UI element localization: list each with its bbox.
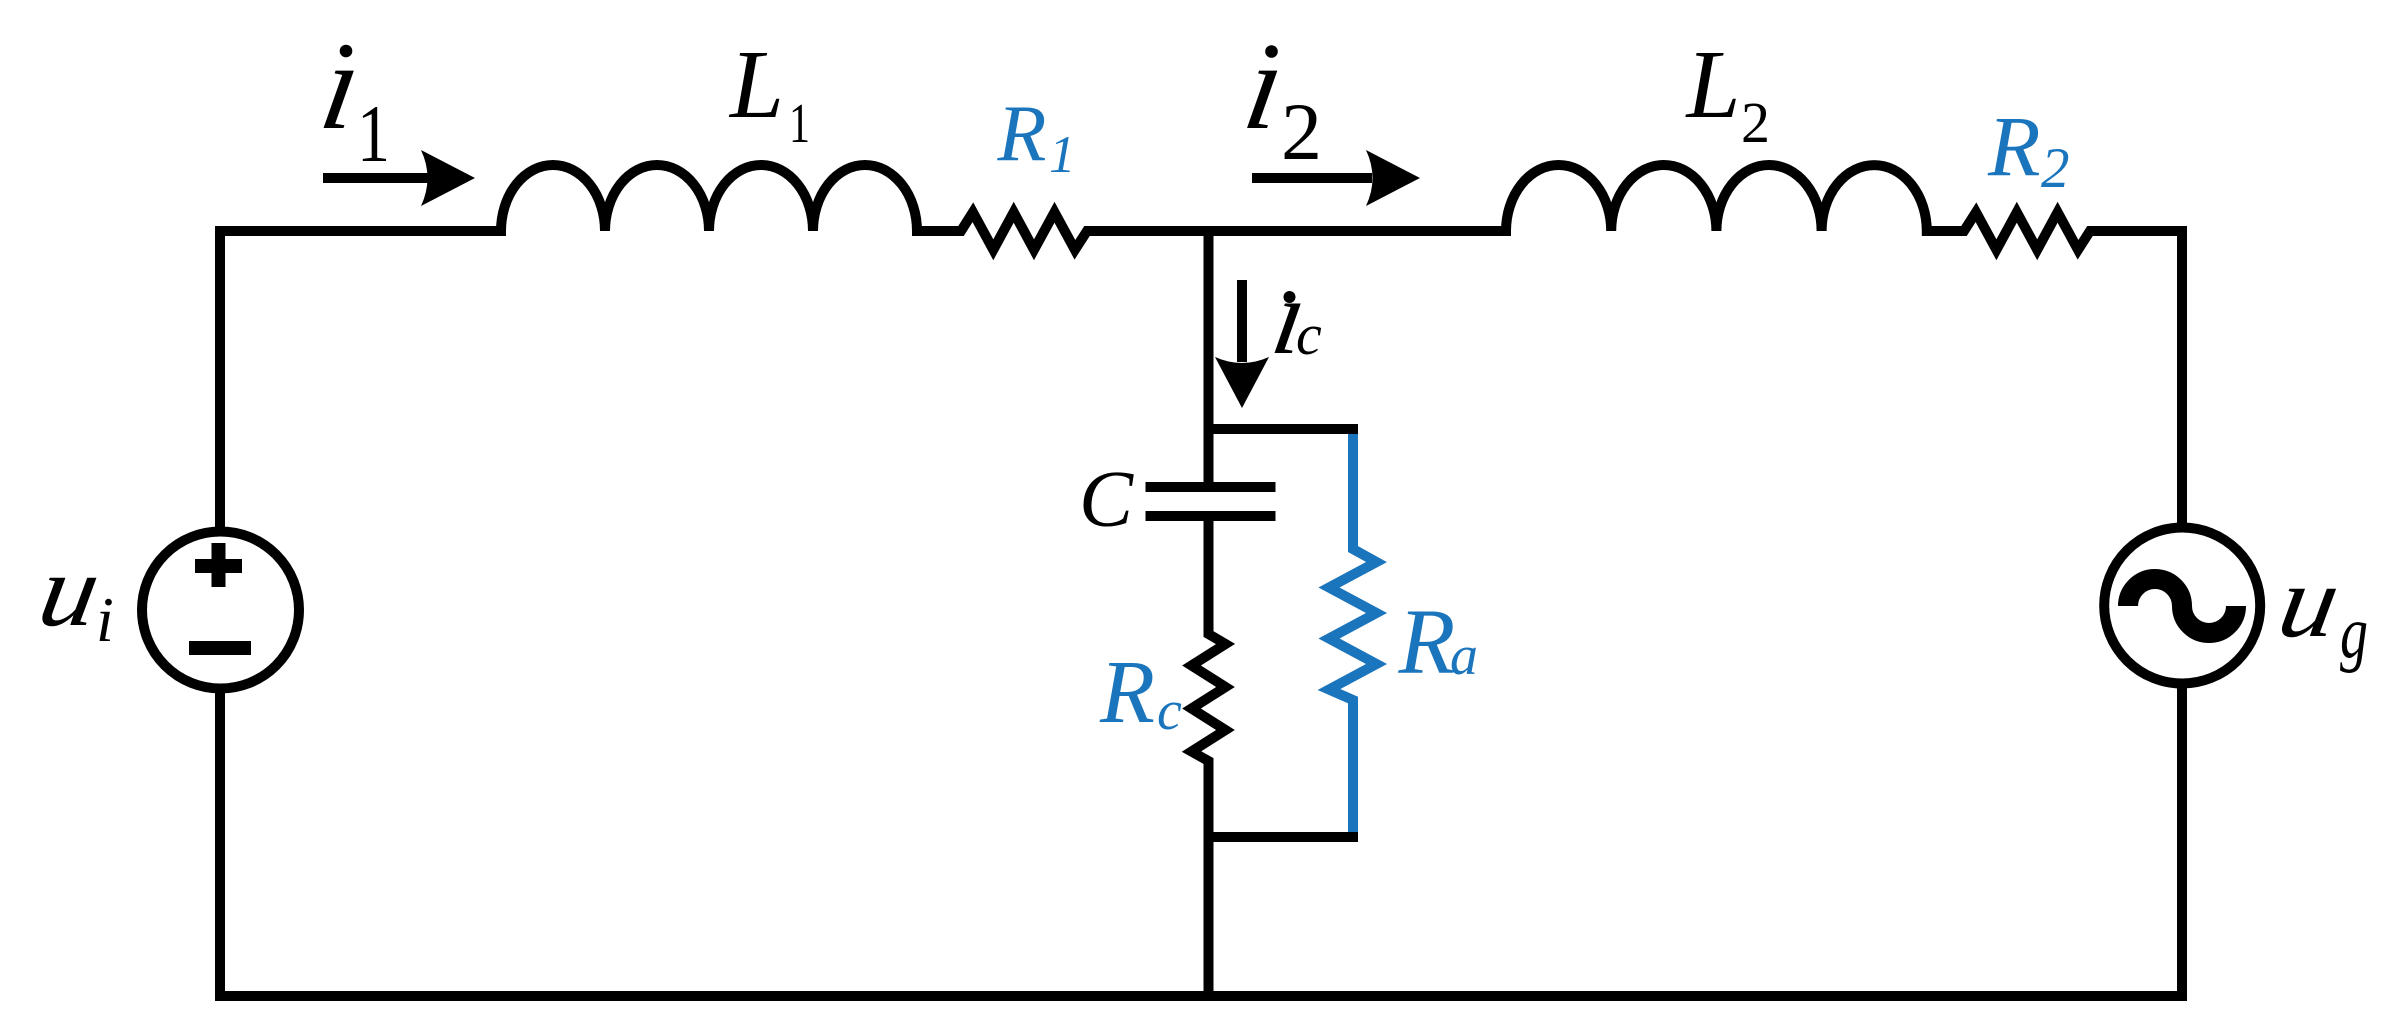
svg-text:R: R: [1099, 643, 1155, 742]
svg-text:R: R: [1398, 591, 1456, 694]
svg-text:2: 2: [1741, 90, 1770, 155]
svg-text:L: L: [1685, 31, 1741, 138]
svg-text:g: g: [2340, 592, 2368, 674]
svg-text:L: L: [728, 31, 784, 138]
svg-text:c: c: [1296, 302, 1322, 367]
svg-text:i: i: [96, 584, 114, 655]
svg-text:1: 1: [357, 88, 390, 179]
svg-text:c: c: [1157, 680, 1182, 742]
svg-text:1: 1: [1049, 126, 1076, 184]
svg-text:R: R: [1987, 98, 2041, 194]
svg-text:R: R: [997, 90, 1047, 178]
svg-text:a: a: [1450, 625, 1478, 687]
svg-text:2: 2: [2041, 137, 2070, 200]
svg-text:1: 1: [789, 93, 810, 155]
svg-text:2: 2: [1281, 86, 1322, 177]
svg-text:C: C: [1079, 454, 1134, 544]
